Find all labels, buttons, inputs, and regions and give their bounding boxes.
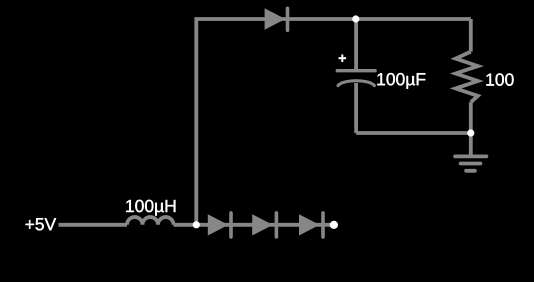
label 100uH (inductor value) <box>126 200 175 216</box>
wire: riser from node A up to top rail across to resistor corner <box>196 19 471 225</box>
ground symbol bar 3 <box>466 169 475 173</box>
diode D3 (chain 2) triangle <box>252 214 273 235</box>
node A junction dot (inductor / diode chain / riser) <box>193 221 200 228</box>
label +5V <box>26 218 57 230</box>
diode D3 cathode bar <box>275 213 279 237</box>
capacitor polarity plus sign <box>339 54 347 62</box>
diode D1 cathode bar <box>286 8 290 30</box>
resistor R1 zigzag body (100 ohm) <box>456 52 478 103</box>
capacitor C1 curved bottom plate <box>338 81 374 86</box>
label 100 (resistor value) <box>486 73 513 85</box>
ground stub wire <box>469 133 473 156</box>
ground symbol bar 1 <box>455 154 486 158</box>
wire: bottom rail capacitor to ground node <box>356 131 471 135</box>
capacitor C1 top plate <box>337 69 375 72</box>
inductor L1 100uH <box>127 217 174 225</box>
diode D1 (top) triangle <box>265 8 286 29</box>
diode D4 (chain 3) triangle <box>299 214 320 235</box>
wire: resistor bottom lead <box>469 102 473 133</box>
diode D4 cathode bar <box>321 213 325 237</box>
node C junction dot (bottom rail / ground) <box>467 129 474 136</box>
wire: +5V source lead to inductor <box>59 223 128 227</box>
diode D2 cathode bar <box>229 213 233 237</box>
wire: capacitor bottom lead <box>354 83 358 133</box>
ground symbol bar 2 <box>461 162 481 166</box>
wire: capacitor top lead <box>354 19 358 71</box>
open terminal dot at end of diode chain <box>330 221 338 229</box>
wire: resistor top lead <box>469 19 473 52</box>
node B junction dot (top rail / capacitor) <box>352 15 359 22</box>
label 100uF (capacitor value) <box>377 73 425 89</box>
wire: inductor to node A and on under the diode chain <box>174 223 335 227</box>
diode D2 (chain 1) triangle <box>208 214 229 235</box>
